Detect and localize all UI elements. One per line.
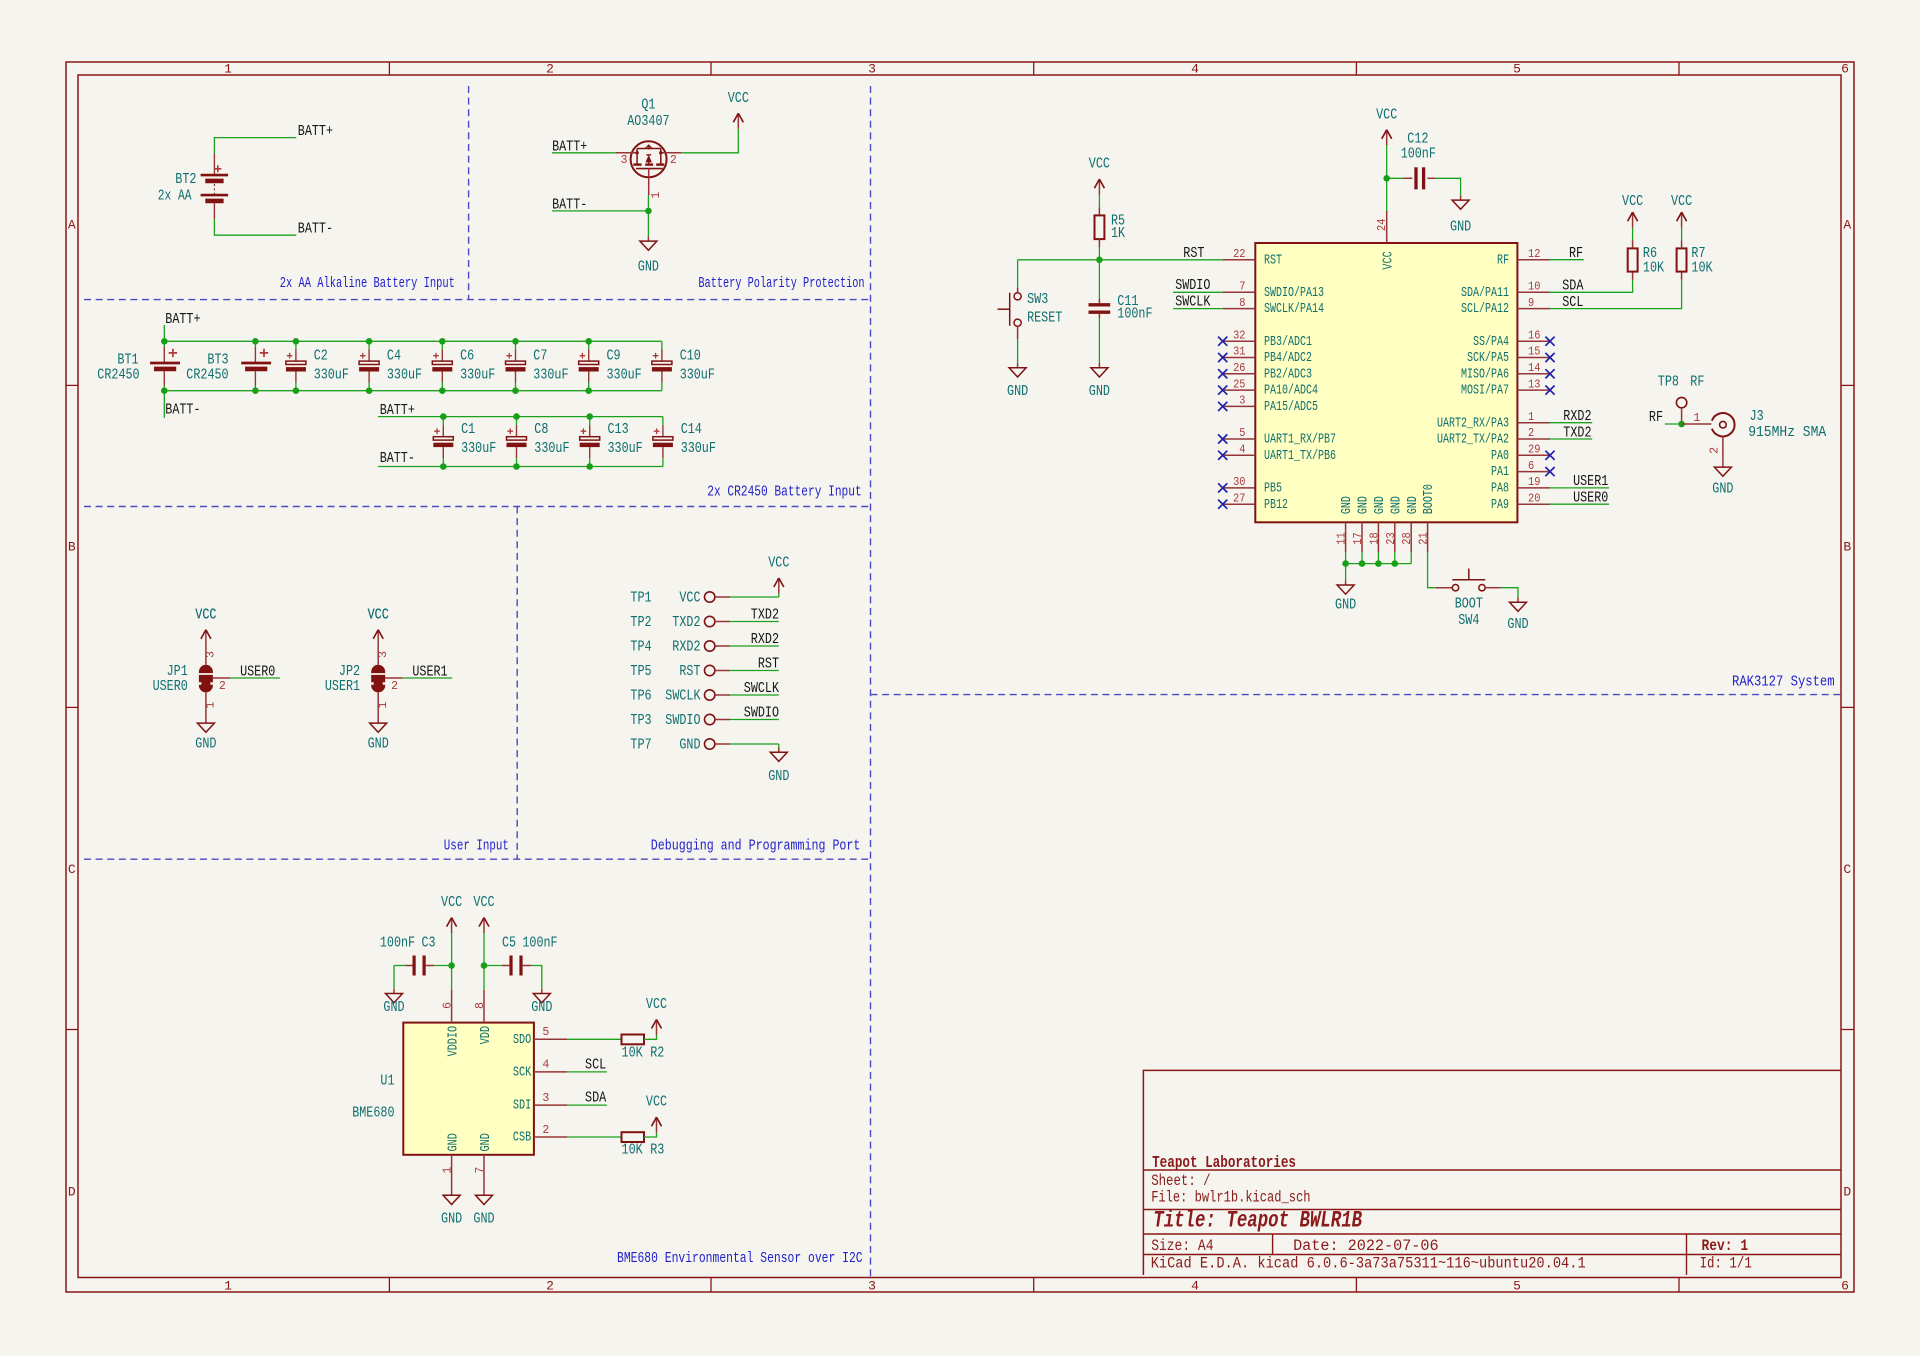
svg-text:TP4: TP4 [630,640,651,656]
svg-text:RXD2: RXD2 [751,632,779,648]
svg-text:C12: C12 [1407,132,1428,148]
IC U1 BME680 body [403,1023,534,1155]
svg-text:10K: 10K [1643,261,1664,277]
svg-text:21: 21 [1418,532,1431,544]
svg-text:TP2: TP2 [630,615,651,631]
ground at SW3 [1017,363,1019,368]
svg-text:13: 13 [1528,378,1540,391]
svg-text:MOSI/PA7: MOSI/PA7 [1461,384,1509,399]
svg-text:16: 16 [1528,329,1540,342]
jumper JP2 pin 1 [377,692,379,718]
svg-text:SDA: SDA [585,1091,606,1107]
svg-text:9: 9 [1528,297,1534,310]
svg-text:RESET: RESET [1027,311,1062,327]
test point TP5 pad [705,665,715,675]
svg-text:UART1_TX/PB6: UART1_TX/PB6 [1264,449,1336,464]
wire SCL to R7 [1550,280,1682,309]
svg-text:D: D [68,1185,76,1200]
IC U2 pin 3 PA15/ADC5 [1223,405,1256,407]
IC U2 pin 30 PB5 [1223,487,1256,489]
svg-text:Battery Polarity Protection: Battery Polarity Protection [698,276,864,292]
connector J3 pin 2 [1722,436,1724,462]
svg-text:CR2450: CR2450 [186,367,228,383]
svg-text:330uF: 330uF [680,367,715,383]
svg-text:J3: J3 [1750,409,1764,425]
svg-text:GND: GND [679,738,700,754]
no-connect at pin 5 [1218,434,1227,443]
power VCC at R3 [656,1117,658,1133]
IC U1 pin 1 GND [451,1155,453,1191]
svg-text:PA1: PA1 [1491,465,1509,480]
svg-text:1: 1 [1528,411,1534,424]
svg-text:VDDIO: VDDIO [446,1026,461,1057]
switch SW3 [998,288,1022,339]
svg-text:TP6: TP6 [630,689,651,705]
svg-text:14: 14 [1528,362,1540,375]
svg-text:1K: 1K [1111,226,1125,242]
svg-text:Teapot Laboratories: Teapot Laboratories [1152,1153,1296,1172]
wire VCC to pin 24 via C12 junction [1386,145,1388,211]
capacitor C9 [579,341,599,390]
svg-text:330uF: 330uF [534,441,569,457]
junction at Q1 gate / BATT- [645,208,652,215]
jumper JP1 pin 2 lead [213,677,230,679]
svg-text:VDD: VDD [479,1026,494,1044]
svg-text:4: 4 [1191,62,1199,77]
svg-text:TXD2: TXD2 [672,615,700,631]
svg-text:3: 3 [868,1279,876,1294]
wire CSB to R3 [567,1136,622,1138]
svg-text:PA10/ADC4: PA10/ADC4 [1264,384,1318,399]
svg-text:330uF: 330uF [387,367,422,383]
svg-text:PA0: PA0 [1491,449,1509,464]
svg-text:30: 30 [1233,476,1245,489]
no-connect at pin 26 [1218,369,1227,378]
test point TP5 pin [715,670,730,672]
wire Q1 drain to VCC [681,129,738,153]
capacitor C8 [507,417,527,467]
svg-text:C8: C8 [534,422,548,438]
wire BATT- stub row1 [163,391,165,418]
wire USER0 from JP1 [230,677,280,679]
junctions CR2450 row2 [440,413,593,470]
svg-text:A: A [68,218,76,233]
IC U2 pin 21 BOOT0 [1427,522,1429,552]
wire USER1 [1550,487,1609,489]
IC U2 pin 31 PB4/ADC2 [1223,357,1256,359]
test point TP1 pad [705,592,715,602]
svg-text:BATT-: BATT- [380,451,415,467]
wire C11 to GND [1098,318,1100,363]
svg-text:BATT+: BATT+ [165,312,200,328]
test point TP6 pin [715,694,730,696]
wire BATT+ to Q1 source [552,152,616,154]
svg-text:TP3: TP3 [630,713,651,729]
svg-text:SDI: SDI [513,1099,531,1114]
no-connect at pin 6 [1545,467,1554,476]
wire SDI / SDA [567,1104,607,1106]
no-connect at pin 29 [1545,451,1554,460]
jumper JP2 pin 3 [377,645,379,665]
capacitor C4 [359,341,379,390]
IC U2 pin 14 MISO/PA6 [1517,373,1550,375]
test point TP1 pin [715,596,730,598]
IC U2 pin 17 GND [1361,522,1363,552]
capacitor C1 [433,417,453,467]
svg-text:330uF: 330uF [608,441,643,457]
test point TP4 pin [715,645,730,647]
svg-text:2: 2 [546,62,554,77]
wire SWCLK [1173,308,1223,310]
wire TP7 to GND [778,744,780,748]
IC U2 pin 23 GND [1394,522,1396,552]
IC U2 pin 1 UART2_RX/PA3 [1517,422,1550,424]
svg-text:USER1: USER1 [325,679,360,695]
svg-text:10K: 10K [622,1046,643,1062]
ground at J3 [1722,462,1724,467]
svg-text:GND: GND [1007,384,1028,400]
IC U2 RAK3127 body [1255,243,1517,522]
wire CR2450 bottom bus [164,390,662,392]
capacitor C7 [506,341,526,390]
test point TP8 pin [1681,408,1683,424]
svg-text:SW3: SW3 [1027,292,1048,308]
svg-text:2x CR2450 Battery Input: 2x CR2450 Battery Input [707,485,861,501]
svg-text:C: C [1843,862,1851,877]
svg-text:C9: C9 [607,349,621,365]
ground at JP2 [377,718,379,723]
svg-text:GND: GND [1335,597,1356,613]
ground at U2 [1345,580,1347,585]
svg-text:20: 20 [1528,492,1540,505]
svg-text:SDA: SDA [1562,279,1583,295]
wire BATT+ row2 [378,416,663,418]
svg-text:RST: RST [679,664,700,680]
svg-text:BATT-: BATT- [165,403,200,419]
svg-text:VCC: VCC [646,997,667,1013]
svg-text:7: 7 [474,1167,487,1174]
wire SW3 to GND [1017,339,1019,363]
IC U2 pin 9 SCL/PA12 [1517,308,1550,310]
wire BATT+ stub row1 [163,325,165,341]
svg-text:GND: GND [1389,496,1404,514]
no-connect at pin 25 [1218,386,1227,395]
svg-text:VCC: VCC [679,591,700,607]
jumper JP2 pin numbers [377,651,398,709]
wire TXD2 [1550,438,1592,440]
IC U2 pin 8 SWCLK/PA14 [1223,308,1256,310]
svg-text:TXD2: TXD2 [1563,425,1591,441]
IC U1 pin 5 SDO [534,1038,567,1040]
junction at VDDIO/C3 [448,962,455,969]
wire C12 left lead [1387,177,1403,179]
junction RF/TP8/J3 [1678,421,1685,428]
IC U2 pin 2 UART2_TX/PA2 [1517,438,1550,440]
svg-text:10K: 10K [1691,261,1712,277]
svg-text:GND: GND [531,1000,552,1016]
svg-text:Rev: 1: Rev: 1 [1702,1237,1749,1255]
capacitor C5 [502,956,531,976]
svg-text:PB12: PB12 [1264,498,1288,513]
svg-text:Title: Teapot BWLR1B: Title: Teapot BWLR1B [1153,1208,1362,1234]
capacitor C10 [652,341,672,390]
svg-text:7: 7 [1239,281,1245,294]
junction RST [1096,257,1103,264]
IC U1 pin 8 VDD [483,990,485,1023]
svg-text:BATT-: BATT- [552,197,587,213]
svg-text:GND: GND [441,1212,462,1228]
wire TP1 to VCC [778,594,780,598]
capacitor C13 [580,417,600,467]
svg-text:1: 1 [650,192,663,199]
power VCC at C12 [1386,130,1388,146]
svg-text:RAK3127 System: RAK3127 System [1732,674,1835,690]
svg-text:PA15/ADC5: PA15/ADC5 [1264,400,1318,415]
svg-text:Date: 2022-07-06: Date: 2022-07-06 [1293,1237,1439,1255]
svg-text:3: 3 [542,1092,549,1105]
svg-text:VCC: VCC [195,607,216,623]
ground at Q1 [647,236,649,241]
svg-text:VCC: VCC [1381,251,1396,269]
svg-text:GND: GND [473,1212,494,1228]
wire at TP3 [730,719,779,721]
IC U2 pin 26 PB2/ADC3 [1223,373,1256,375]
IC U2 pin 25 PA10/ADC4 [1223,389,1256,391]
svg-text:GND: GND [383,1000,404,1016]
svg-text:C1: C1 [461,422,475,438]
svg-text:SCL/PA12: SCL/PA12 [1461,302,1509,317]
svg-text:1: 1 [205,702,218,709]
svg-text:SCL: SCL [585,1058,606,1074]
wire VDDIO rail [451,933,453,990]
svg-text:R7: R7 [1691,246,1705,262]
power VCC at R2 [656,1020,658,1036]
svg-text:1: 1 [224,62,232,77]
wire at TP7 [730,743,779,745]
svg-text:USER0: USER0 [1573,491,1608,507]
wire USER1 from JP2 [403,677,453,679]
svg-text:SWCLK: SWCLK [1175,295,1210,311]
no-connect at pin 14 [1545,369,1554,378]
IC U2 pin 15 SCK/PA5 [1517,357,1550,359]
svg-text:SWDIO: SWDIO [665,713,700,729]
svg-text:C4: C4 [387,349,401,365]
wire RXD2 [1550,422,1592,424]
svg-text:1: 1 [441,1167,454,1174]
svg-text:GND: GND [768,769,789,785]
svg-text:USER1: USER1 [412,665,447,681]
test point TP2 pin [715,621,730,623]
svg-text:R3: R3 [650,1142,664,1158]
svg-text:19: 19 [1528,476,1540,489]
ground at C11 [1098,363,1100,368]
svg-text:VCC: VCC [768,556,789,572]
svg-text:BATT+: BATT+ [380,403,415,419]
svg-text:100nF: 100nF [1117,307,1152,323]
svg-text:VCC: VCC [1622,194,1643,210]
svg-text:GND: GND [1450,220,1471,236]
svg-text:U1: U1 [380,1073,394,1089]
power VCC at C5/VDD [483,918,485,934]
power VCC at Q1 [737,113,739,129]
jumper JP2 body [371,665,385,693]
test point TP3 pin [715,719,730,721]
svg-text:BT2: BT2 [175,172,196,188]
IC U2 pin 22 RST [1223,259,1256,261]
svg-text:15: 15 [1528,346,1540,359]
resistor R5 [1095,195,1105,248]
svg-text:BT1: BT1 [117,352,138,368]
svg-text:GND: GND [1089,384,1110,400]
svg-text:GND: GND [1712,481,1733,497]
svg-text:SWCLK/PA14: SWCLK/PA14 [1264,302,1324,317]
test point TP3 pad [705,714,715,724]
svg-text:PA9: PA9 [1491,498,1509,513]
svg-text:6: 6 [1841,1279,1849,1294]
svg-text:GND: GND [1406,496,1421,514]
svg-text:PA8: PA8 [1491,482,1509,497]
svg-text:1: 1 [377,702,390,709]
junctions CR2450 row1 bottom bus [161,387,592,394]
wire C3 left down to GND [393,966,395,989]
svg-text:RXD2: RXD2 [1563,409,1591,425]
svg-text:B: B [68,540,76,555]
svg-text:AO3407: AO3407 [627,114,669,130]
svg-text:5: 5 [1513,1279,1521,1294]
svg-text:31: 31 [1233,346,1245,359]
wire C3 to VDDIO net [394,965,405,967]
svg-text:3: 3 [1239,395,1245,408]
power VCC at R5 [1098,179,1100,195]
no-connect at pin 16 [1545,337,1554,346]
svg-text:28: 28 [1401,532,1414,544]
svg-text:GND: GND [195,737,216,753]
svg-text:TP5: TP5 [630,664,651,680]
capacitor C14 [653,417,673,467]
junctions CR2450 row1 top bus [161,338,592,345]
svg-text:2: 2 [219,680,226,693]
no-connect at pin 13 [1545,386,1554,395]
svg-text:4: 4 [1239,444,1245,457]
jumper JP1 pin numbers [205,651,226,709]
svg-text:RF: RF [1497,253,1509,268]
svg-text:File: bwlr1b.kicad_sch: File: bwlr1b.kicad_sch [1151,1188,1310,1206]
switch SW4 [1436,569,1501,591]
svg-text:Sheet: /: Sheet: / [1151,1172,1210,1190]
IC U2 pin 29 PA0 [1517,454,1550,456]
svg-text:RST: RST [758,657,779,673]
svg-text:GND: GND [368,737,389,753]
svg-text:3: 3 [868,62,876,77]
svg-text:VCC: VCC [441,895,462,911]
ground at C12 [1460,195,1462,200]
test point TP7 pad [705,739,715,749]
ground at TP7 [778,748,780,753]
wire BATT+ from BT2 [214,138,296,154]
IC U2 pin 19 PA8 [1517,487,1550,489]
svg-text:RF: RF [1690,375,1704,391]
svg-text:TP7: TP7 [630,738,651,754]
resistor R7 [1677,228,1687,280]
ground at U1 pin 7 [483,1191,485,1196]
svg-text:USER0: USER0 [153,679,188,695]
junction at VDD/C5 [481,962,488,969]
IC U2 pin 6 PA1 [1517,471,1550,473]
svg-text:2x AA: 2x AA [158,188,192,204]
IC U2 pin 24 VCC [1386,211,1388,243]
IC U1 pin 6 VDDIO [451,990,453,1023]
svg-text:C2: C2 [314,349,328,365]
svg-text:Id: 1/1: Id: 1/1 [1700,1255,1752,1273]
test point TP8 pad [1676,397,1686,407]
power VCC at TP1 [778,578,780,594]
wire CR2450 top bus [164,340,662,342]
svg-text:C6: C6 [460,349,474,365]
svg-text:330uF: 330uF [607,367,642,383]
jumper JP1 body [199,665,213,693]
wire ground bus down [1345,564,1347,581]
svg-text:Debugging and Programming Port: Debugging and Programming Port [651,838,861,854]
svg-text:6: 6 [1528,460,1534,473]
svg-text:GND: GND [1507,617,1528,633]
wire C5 right down to GND [531,966,542,989]
wire at TP4 [730,645,779,647]
section divider: user input / debug port vertical [516,507,518,860]
wire RST junction to C11 [1098,260,1100,299]
resistor R6 [1628,228,1638,280]
svg-text:VCC: VCC [646,1095,667,1111]
svg-text:2: 2 [1709,447,1722,454]
IC U1 pin 4 SCK [534,1071,567,1073]
svg-text:User Input: User Input [444,838,509,854]
svg-text:330uF: 330uF [314,367,349,383]
svg-text:SWCLK: SWCLK [744,681,779,697]
svg-text:GND: GND [1340,496,1355,514]
connector J3 pin 1 lead [1682,423,1712,425]
svg-text:2: 2 [546,1279,554,1294]
svg-text:VCC: VCC [473,895,494,911]
svg-text:6: 6 [1841,62,1849,77]
IC U1 pin 2 CSB [534,1136,567,1138]
ground at JP1 [205,718,207,723]
no-connect at pin 30 [1218,483,1227,492]
svg-text:USER0: USER0 [240,665,275,681]
IC U2 pin 27 PB12 [1223,503,1256,505]
svg-text:CSB: CSB [513,1131,531,1146]
IC U2 pin 18 GND [1377,522,1379,552]
power VCC at R7 [1681,212,1683,228]
resistor R2 [622,1035,657,1045]
no-connect at pin 15 [1545,353,1554,362]
wire BATT- row2 [378,466,663,468]
svg-text:R2: R2 [650,1046,664,1062]
capacitor C11 [1089,299,1111,318]
test point TP6 pad [705,690,715,700]
test point TP2 pad [705,616,715,626]
svg-text:32: 32 [1233,329,1245,342]
svg-text:2: 2 [670,154,677,167]
svg-text:C10: C10 [680,349,701,365]
wire BOOT0 to SW4 [1428,552,1436,588]
svg-text:17: 17 [1352,532,1365,544]
svg-text:22: 22 [1233,248,1245,261]
svg-text:10K: 10K [622,1142,643,1158]
svg-text:BOOT0: BOOT0 [1422,484,1437,514]
IC U2 pin 13 MOSI/PA7 [1517,389,1550,391]
svg-text:GND: GND [479,1133,494,1151]
power VCC at R6 [1632,212,1634,228]
section divider: battery input / polarity protection vertical [468,86,470,300]
